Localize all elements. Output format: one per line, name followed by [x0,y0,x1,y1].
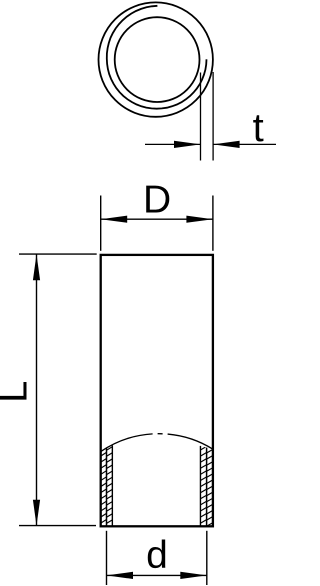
inner bore crown arc (with break dash) [101,434,213,452]
right wall inner boundary line [199,446,201,526]
extension line inner (t) [200,73,202,161]
sleeve body outline (side view) [101,255,213,526]
dimension leader t right [213,141,276,148]
extension line left (D) [100,196,102,251]
extension line bottom (L) [19,525,96,527]
svg-text:L: L [0,381,36,403]
svg-text:D: D [143,179,171,222]
dimension line L with arrows [33,254,40,526]
right wall overlap middle line [206,448,208,526]
hatching right wall section [200,443,212,532]
dimension line D with arrows [101,216,213,223]
dimension leader t left [145,141,201,148]
extension line right (D) [212,196,214,251]
extension line top (L) [19,253,97,255]
svg-text:t: t [253,106,264,150]
extension line left (d) [106,531,108,585]
extension line outer (t) [212,72,214,161]
left wall inner boundary line [111,445,113,526]
outer circle (top view) [99,2,213,116]
extension line right (d) [206,531,208,585]
seam arc (rolled sleeve overlap edge, top view) [107,6,207,109]
inner circle (top view) [115,17,200,102]
dimension line d with arrows [107,572,207,579]
svg-text:d: d [146,534,168,577]
left wall overlap middle line [106,448,108,526]
hatching left wall section [101,441,113,530]
